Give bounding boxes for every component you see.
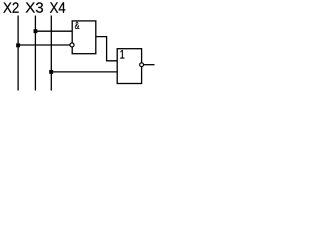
wire X2 vertical rail <box>17 16 19 91</box>
or-gate U2 body <box>117 49 141 84</box>
inversion bubble U1 input B <box>70 43 74 47</box>
junction on X2 rail <box>16 44 20 48</box>
wire U2 bottom input from X4 <box>51 71 117 73</box>
junction on X3 rail <box>34 29 38 33</box>
wire U2 output <box>144 64 155 66</box>
wire U1 bottom input from X2 <box>18 44 70 46</box>
node X4 label <box>50 2 65 12</box>
wire U1 output to U2 top input <box>96 37 117 61</box>
and-gate U1 symbol & <box>75 22 79 29</box>
and-gate U1 body <box>72 21 96 54</box>
wire U1 top input from X3 <box>35 30 72 32</box>
wire X4 vertical rail <box>50 16 52 91</box>
or-gate U2 symbol 1 <box>120 50 124 59</box>
wire X3 vertical rail <box>34 16 36 91</box>
node X2 label <box>3 2 18 12</box>
junction on X4 rail <box>49 70 53 74</box>
inversion bubble U2 output <box>140 63 144 67</box>
node X3 label <box>26 2 43 12</box>
